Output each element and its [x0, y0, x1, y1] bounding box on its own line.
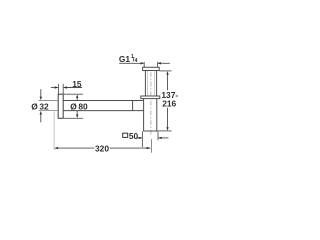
dim 15: extension lines above rosette [58, 84, 63, 94]
svg-text:Ø 80: Ø 80 [70, 101, 88, 111]
horizontal outlet pipe to wall: top/bottom lines [63, 101, 143, 111]
svg-text:15: 15 [72, 79, 82, 89]
svg-text:50: 50 [129, 131, 139, 141]
wall rosette flange (side view) [58, 94, 63, 118]
dim 32: vertical arrows (outside) [40, 89, 42, 122]
centerline [150, 72, 152, 136]
dim square 50: dimension line + outside arrows [136, 137, 168, 139]
dim 80: vertical dimension line with arrows [76, 94, 78, 118]
dim 80: extension lines right of rosette [64, 94, 83, 118]
dim 320: right extension line (tailpiece axis) [150, 139, 152, 153]
side joint line on horizontal pipe [132, 101, 134, 111]
tailpiece top flange [143, 67, 160, 70]
dim G1 1/4: extension lines [144, 62, 157, 68]
svg-text:Ø 32: Ø 32 [31, 101, 49, 111]
trap cup body [143, 99, 157, 131]
label square 50 [123, 133, 128, 137]
dim 32: extension lines left of rosette [39, 101, 58, 111]
dim square 50: extension lines below cup [142, 131, 158, 147]
dim 137-216: extension lines [157, 71, 171, 131]
tailpiece inner lines [148, 71, 155, 96]
svg-text:G1: G1 [119, 54, 131, 64]
dim 137-216: vertical dimension line with arrows [166, 71, 168, 131]
dim 320: left extension line (faint) [53, 111, 55, 150]
svg-text:216: 216 [162, 99, 176, 109]
label G1 1/4 [119, 54, 138, 64]
dim G1 1/4: dimension line + outside arrows [119, 62, 170, 64]
tailpiece pipe walls [145, 71, 156, 96]
slip nut at cup top [141, 96, 160, 99]
dim 320: dimension line [54, 147, 151, 149]
dim 15: dimension line + outside arrows [51, 86, 82, 88]
svg-text:320: 320 [95, 143, 109, 153]
